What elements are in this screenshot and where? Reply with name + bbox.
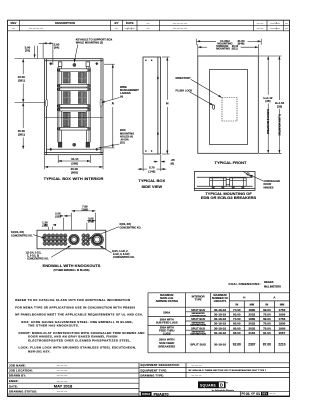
svg-text:[508]: [508]	[71, 171, 78, 175]
svg-text:— — —: — — —	[57, 379, 67, 383]
dim 15.00 upper left	[15, 59, 45, 103]
box seam line	[45, 116, 103, 118]
svg-text:2337: 2337	[248, 342, 255, 346]
wire management lances marks on box wall	[46, 100, 102, 107]
svg-text:OF: OF	[251, 392, 255, 396]
svg-text:SPLIT BUS: SPLIT BUS	[191, 308, 205, 312]
endwall label 16 KO	[11, 231, 33, 237]
notes	[15, 298, 145, 353]
dim surface mounting 20.12	[198, 44, 258, 55]
keyhole leader	[74, 44, 78, 62]
endwall label big KO1	[26, 251, 50, 260]
svg-text:WHILE MOUNTING (2): WHILE MOUNTING (2)	[76, 41, 103, 45]
svg-text:FLUSH MOUNTING: FLUSH MOUNTING	[277, 114, 280, 136]
svg-text:(OTHER ENDWALL IS BLANK): (OTHER ENDWALL IS BLANK)	[54, 269, 90, 272]
svg-text:SURFACE MOUNTING: SURFACE MOUNTING	[266, 109, 269, 134]
interior right rail	[87, 62, 89, 142]
svg-text:— —: — —	[257, 26, 264, 30]
svg-text:2032: 2032	[249, 322, 256, 326]
keyhole top	[73, 64, 76, 67]
svg-text:BY: BY	[114, 21, 118, 25]
svg-text:—: —	[285, 26, 288, 30]
svg-text:EQUIPMENT DESIGNATION:: EQUIPMENT DESIGNATION:	[141, 363, 180, 367]
square d logo	[198, 381, 235, 392]
svg-text:AMPERE RATING: AMPERE RATING	[156, 299, 178, 303]
svg-text:REV: REV	[262, 393, 267, 396]
front view outline	[198, 56, 258, 153]
svg-text:30-18-18: 30-18-18	[214, 342, 226, 346]
svg-text:BREAKERS: BREAKERS	[158, 345, 175, 349]
svg-text:[146]: [146]	[148, 169, 155, 173]
dim .25	[154, 155, 166, 171]
endwall KO2	[91, 233, 103, 245]
svg-text:—: —	[147, 21, 150, 25]
box mounting holes label	[120, 128, 134, 144]
svg-text:— — — —: — — — —	[173, 21, 187, 25]
svg-text:01: 01	[246, 392, 250, 396]
dim 2.50 top	[54, 42, 60, 49]
svg-text:30-18-18: 30-18-18	[214, 308, 226, 312]
svg-text:DESCRIPTION: DESCRIPTION	[55, 21, 75, 25]
svg-text:H: H	[243, 295, 245, 299]
svg-text:JOB NAME:: JOB NAME:	[9, 364, 26, 368]
breaker group 3	[63, 112, 85, 126]
rail bottom tabs	[58, 142, 89, 147]
dim flush mounting 21.50	[197, 39, 262, 45]
endwall KO1	[69, 234, 79, 244]
dim 20.00 below box	[45, 155, 103, 169]
svg-text:[10]: [10]	[120, 141, 125, 145]
svg-text:SUB FEED LUGS: SUB FEED LUGS	[156, 321, 178, 325]
svg-text:EDB OR ECB-G3 BREAKERS: EDB OR ECB-G3 BREAKERS	[201, 195, 257, 200]
svg-text:1905: 1905	[279, 313, 286, 317]
breaker feet	[212, 186, 244, 188]
center connector	[226, 179, 230, 184]
bus bar F	[58, 127, 90, 130]
svg-text:MM: MM	[250, 303, 255, 307]
svg-text:— — —: — — —	[57, 390, 67, 394]
box mounting holes leader	[99, 144, 120, 148]
svg-text:DIRECTORY: DIRECTORY	[176, 76, 191, 80]
svg-text:80.00: 80.00	[233, 313, 241, 317]
svg-text:— — —: — — —	[192, 364, 202, 367]
svg-text:MILLIMETERS: MILLIMETERS	[264, 285, 281, 288]
svg-text:69.00: 69.00	[263, 317, 271, 321]
svg-text:— —: — —	[270, 393, 276, 396]
svg-text:30-18-18: 30-18-18	[214, 313, 226, 317]
svg-text:10.44: 10.44	[71, 157, 79, 161]
dim 10.44 below box	[58, 155, 90, 163]
svg-text:(4): (4)	[120, 94, 123, 98]
svg-text:ELECTRODEPOSITED OVER CLEANED: ELECTRODEPOSITED OVER CLEANED PHOSPHATIZ…	[28, 338, 131, 342]
svg-text:2210: 2210	[278, 342, 285, 346]
svg-text:by Schneider Electric: by Schneider Electric	[212, 389, 235, 392]
svg-text:EQUIPMENT TYPE:: EQUIPMENT TYPE:	[141, 368, 168, 372]
svg-text:[28]: [28]	[265, 99, 270, 103]
svg-text:DISTRIBUTION: DISTRIBUTION	[190, 324, 206, 326]
front door	[210, 70, 248, 145]
svg-text:80.00: 80.00	[233, 326, 241, 330]
svg-text:— — — —: — — — —	[29, 26, 43, 30]
svg-text:75.00: 75.00	[263, 322, 271, 326]
svg-text:CONCENTRIC KO.: CONCENTRIC KO.	[120, 226, 142, 229]
endwall dims	[45, 211, 96, 230]
svg-text:SPLIT BUS: SPLIT BUS	[191, 317, 205, 321]
svg-text:— — —: — — —	[57, 369, 67, 373]
endwall bar	[37, 230, 106, 249]
svg-text:NSR-251 KEY.: NSR-251 KEY.	[28, 349, 51, 353]
svg-text:80.00: 80.00	[233, 322, 241, 326]
directory leader	[191, 79, 222, 97]
svg-text:[6]: [6]	[171, 162, 175, 166]
svg-text:— — —: — — —	[57, 364, 67, 368]
box mounting holes (4)	[49, 62, 98, 150]
bottom keyhole screw	[73, 143, 76, 146]
interior pan	[57, 67, 90, 142]
svg-text:69.00: 69.00	[263, 308, 271, 312]
svg-text:[76]: [76]	[25, 49, 30, 53]
dwg number row	[141, 392, 152, 396]
svg-text:THE OTHER HAS KNOCKOUTS.: THE OTHER HAS KNOCKOUTS.	[28, 324, 79, 328]
svg-text:[381]: [381]	[18, 79, 25, 83]
svg-text:[64]: [64]	[54, 46, 59, 50]
svg-text:MM: MM	[280, 303, 285, 307]
svg-text:HINGES: HINGES	[264, 185, 274, 189]
svg-text:CONCENTRIC KO.: CONCENTRIC KO.	[113, 256, 135, 259]
svg-text:— —: — —	[257, 21, 264, 25]
revision table right	[160, 20, 284, 31]
dim 15.00 lower left	[22, 103, 24, 149]
svg-text:30-18-18: 30-18-18	[214, 317, 226, 321]
svg-text:D: D	[220, 383, 223, 388]
svg-text:SPLIT BUS: SPLIT BUS	[190, 342, 206, 346]
svg-text:LUGS: LUGS	[163, 331, 171, 335]
svg-text:— — —: — — —	[192, 374, 202, 377]
svg-text:IN: IN	[266, 303, 269, 307]
endwall label big KO2	[112, 250, 135, 259]
svg-text:DRAWING TYPE:: DRAWING TYPE:	[141, 373, 165, 377]
svg-text:30-18-18: 30-18-18	[214, 326, 226, 330]
svg-text:ENDWALL WITH KNOCKOUTS: ENDWALL WITH KNOCKOUTS	[43, 263, 101, 268]
svg-text:FOR NEMA TYPE 3R APPLICATIONS: FOR NEMA TYPE 3R APPLICATIONS USE IN CON…	[15, 305, 135, 309]
svg-text:— — — —: — — — —	[173, 26, 187, 30]
endwall label 6 KO	[120, 223, 142, 229]
svg-text:92.00: 92.00	[233, 342, 241, 346]
interior left rail	[59, 62, 61, 142]
dim 5.75	[138, 155, 167, 171]
breaker group 2	[63, 92, 85, 104]
svg-text:SQUARE: SQUARE	[200, 383, 216, 387]
svg-text:—: —	[285, 21, 288, 25]
data table	[148, 293, 290, 353]
bus bar C	[58, 88, 90, 91]
svg-text:DRAWING STATUS:: DRAWING STATUS:	[9, 390, 37, 394]
title block	[8, 363, 290, 397]
svg-text:81.00: 81.00	[263, 331, 271, 335]
svg-text:250A: 250A	[163, 310, 171, 314]
svg-text:DATE: DATE	[126, 21, 134, 25]
bus bar E	[58, 108, 90, 111]
svg-text:01: 01	[256, 392, 260, 396]
svg-text:CONCENTRIC KO.: CONCENTRIC KO.	[27, 258, 49, 261]
bottom border thick	[8, 395, 290, 397]
svg-text:PG: PG	[242, 392, 246, 396]
svg-text:MOUNTING: MOUNTING	[216, 48, 230, 51]
svg-text:[511]: [511]	[232, 48, 238, 51]
svg-text:REFER TO DF CATALOG CLASS 1670: REFER TO DF CATALOG CLASS 1670 FOR ADDIT…	[15, 298, 130, 302]
interior bottom flange	[47, 148, 101, 150]
svg-text:— — —: — — —	[57, 374, 67, 378]
svg-text:PBA870: PBA870	[154, 391, 170, 396]
revision table left	[8, 20, 290, 31]
endwall cluster 6	[82, 234, 90, 245]
keyhole label	[76, 37, 113, 44]
svg-text:1753: 1753	[279, 308, 286, 312]
svg-text:CIRCUITS: CIRCUITS	[214, 299, 227, 303]
svg-text:[39]: [39]	[277, 104, 282, 108]
breaker group 1	[63, 73, 85, 84]
svg-text:—: —	[147, 26, 150, 30]
wire management leader	[102, 98, 120, 103]
svg-text:[52]: [52]	[55, 215, 60, 219]
svg-text:SIDE VIEW: SIDE VIEW	[141, 184, 162, 189]
svg-text:1753: 1753	[279, 317, 286, 321]
svg-text:1905: 1905	[279, 322, 286, 326]
svg-text:——/—: ——/—	[270, 21, 280, 25]
svg-text:75.00: 75.00	[263, 313, 271, 317]
wire management lances label	[120, 85, 139, 98]
dim 3.00 top left	[25, 45, 31, 52]
svg-text:TYPICAL BOX: TYPICAL BOX	[138, 178, 165, 183]
svg-text:DRAWN BY:: DRAWN BY:	[9, 374, 26, 378]
svg-text:NF PANELBOARDS MEET THE APPLIC: NF PANELBOARDS MEET THE APPLICABLE REQUI…	[15, 313, 143, 317]
svg-text:NF 250A MLO THREE SECTION SPLI: NF 250A MLO THREE SECTION SPLIT BUS/SEPA…	[189, 369, 267, 372]
svg-text:——/—: ——/—	[270, 26, 280, 30]
svg-text:TYPE: TYPE	[195, 298, 202, 302]
concealed door hinges label	[264, 179, 281, 189]
rail top tabs	[58, 62, 89, 67]
dim A right of box	[104, 64, 115, 148]
svg-text:SPLIT BUS: SPLIT BUS	[191, 326, 205, 330]
svg-text:[381]: [381]	[18, 132, 25, 136]
svg-text:[35]: [35]	[42, 223, 47, 227]
svg-text:2032: 2032	[249, 313, 256, 317]
svg-text:JOB LOCATION:: JOB LOCATION:	[9, 369, 33, 373]
bus bar D	[58, 105, 90, 108]
svg-text:ENGR:: ENGR:	[9, 379, 19, 383]
dim H+1.12 surface	[259, 56, 282, 153]
svg-text:[195]: [195]	[82, 208, 89, 212]
svg-text:INCHES: INCHES	[264, 281, 274, 284]
dim H	[162, 57, 170, 154]
svg-text:DISTRIBUTION: DISTRIBUTION	[190, 334, 206, 336]
sheet border	[8, 20, 290, 396]
flush lock leader	[190, 92, 213, 105]
svg-text:REV: REV	[11, 21, 17, 25]
mounting view outline	[194, 172, 255, 191]
svg-text:—: —	[12, 26, 15, 30]
endwall knockout cluster 16	[43, 234, 67, 245]
svg-text:87.00: 87.00	[263, 342, 271, 346]
side view screws	[145, 59, 158, 151]
svg-text:[265]: [265]	[71, 162, 78, 166]
svg-text:IN: IN	[235, 303, 238, 307]
svg-text:30-18-18: 30-18-18	[214, 322, 226, 326]
svg-text:30-18-18: 30-18-18	[214, 331, 226, 335]
svg-text:MAY 2018: MAY 2018	[54, 384, 73, 389]
flush lock	[213, 105, 215, 109]
side view outline	[143, 57, 161, 154]
typical box with interior: box outline	[45, 59, 103, 155]
breaker left	[210, 178, 227, 186]
svg-text:DISTRIBUTION: DISTRIBUTION	[190, 315, 206, 317]
svg-text:TYPICAL FRONT: TYPICAL FRONT	[215, 160, 247, 165]
top bus bar	[58, 69, 90, 72]
svg-text:—: —	[115, 26, 118, 30]
concealed door hinges leader	[250, 175, 263, 181]
equipment block	[139, 363, 290, 397]
svg-text:—/—/—: —/—/—	[125, 26, 135, 30]
bus bar B	[58, 84, 90, 87]
svg-text:86.00: 86.00	[233, 331, 241, 335]
svg-text:2032: 2032	[249, 326, 256, 330]
svg-text:1880: 1880	[249, 317, 256, 321]
svg-text:1905: 1905	[279, 326, 286, 330]
svg-text:DATE:: DATE:	[9, 384, 18, 388]
svg-text:2057: 2057	[279, 331, 286, 335]
dim H+1.52 flush	[278, 56, 280, 153]
svg-text:1880: 1880	[249, 308, 256, 312]
directory dashed	[222, 98, 237, 122]
svg-text:[546]: [546]	[238, 42, 245, 46]
svg-text:[78]: [78]	[88, 220, 93, 224]
breaker right	[230, 178, 247, 186]
hinge detail	[247, 173, 249, 175]
svg-text:2184: 2184	[249, 331, 256, 335]
svg-text:CONCENTRIC KO.: CONCENTRIC KO.	[11, 234, 33, 237]
svg-text:74.00: 74.00	[233, 317, 241, 321]
svg-text:75.00: 75.00	[263, 326, 271, 330]
svg-text:DUAL DIMENSIONS:: DUAL DIMENSIONS:	[229, 282, 261, 286]
svg-text:DWG#: DWG#	[142, 392, 151, 396]
svg-text:TYPICAL BOX WITH INTERIOR: TYPICAL BOX WITH INTERIOR	[44, 176, 104, 181]
svg-text:74.00: 74.00	[233, 308, 241, 312]
